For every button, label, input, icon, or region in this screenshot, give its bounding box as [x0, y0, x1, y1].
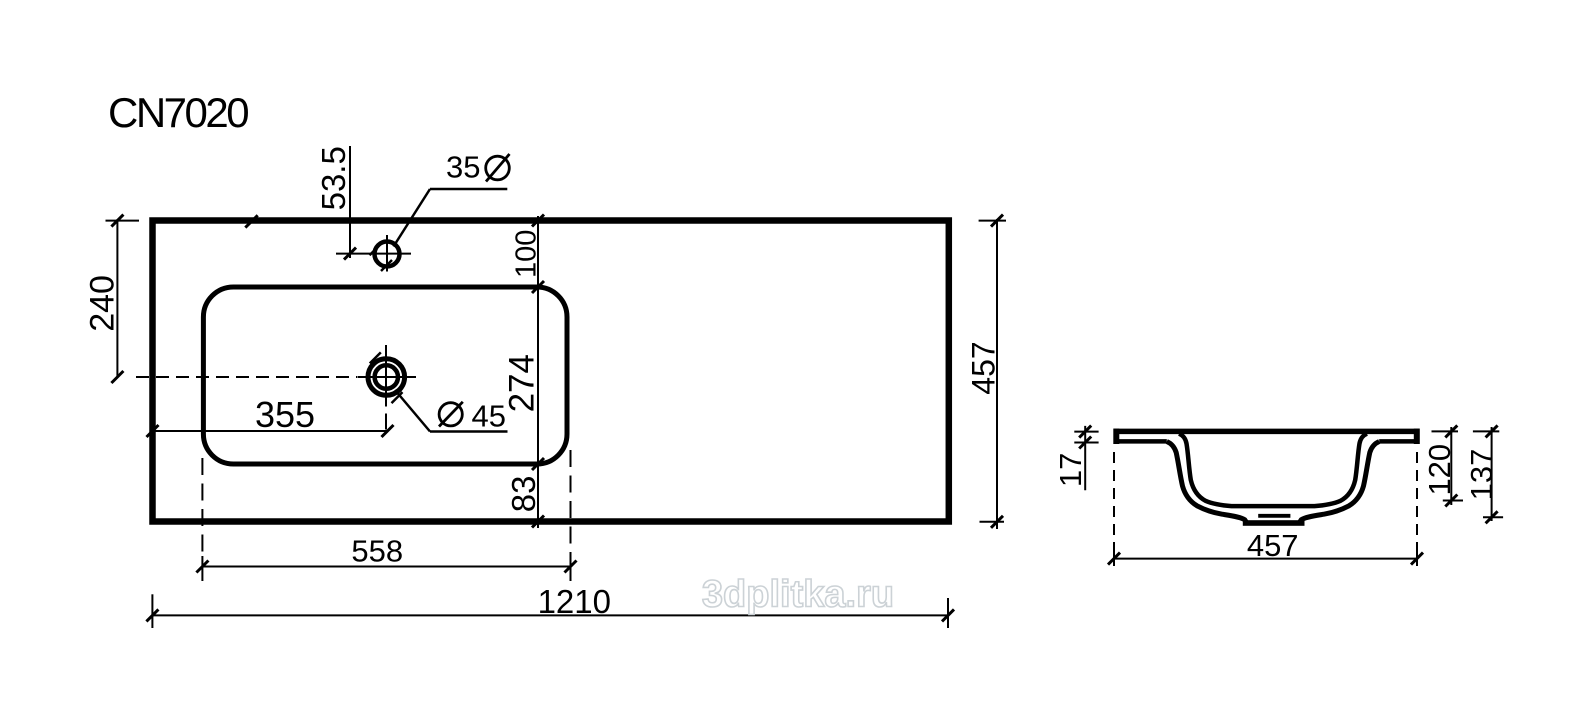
dimension 137 — [1473, 425, 1503, 523]
dimension 240 — [106, 215, 140, 383]
svg-text:100: 100 — [511, 230, 543, 278]
svg-text:53.5: 53.5 — [315, 146, 352, 210]
dimension 1210 — [146, 594, 954, 628]
svg-text:558: 558 — [351, 534, 403, 569]
svg-text:CN7020: CN7020 — [108, 89, 248, 136]
svg-text:457: 457 — [1247, 528, 1299, 563]
svg-text:3dplitka.ru: 3dplitka.ru — [702, 574, 894, 616]
dimension 17 — [1074, 426, 1098, 491]
svg-text:45: 45 — [472, 398, 506, 433]
dimension 558 — [196, 450, 576, 581]
svg-text:1210: 1210 — [538, 583, 611, 620]
dimension 355 — [147, 425, 394, 437]
dimension 53.5 — [344, 146, 356, 260]
svg-text:83: 83 — [505, 476, 542, 513]
dimension 457 section — [1108, 452, 1423, 566]
svg-text:240: 240 — [84, 275, 122, 332]
svg-text:274: 274 — [503, 354, 542, 412]
dimension 120 — [1432, 425, 1464, 506]
svg-text:120: 120 — [1422, 444, 1457, 496]
svg-text:355: 355 — [255, 394, 315, 435]
section: bowl outer wall — [1167, 442, 1379, 524]
section: foot — [1243, 520, 1305, 526]
svg-text:137: 137 — [1464, 449, 1499, 501]
svg-text:35: 35 — [446, 150, 480, 185]
svg-text:17: 17 — [1053, 453, 1088, 487]
faucet hole — [336, 235, 411, 272]
label diameter-45 with leader — [395, 390, 508, 432]
basin outline — [203, 287, 567, 464]
basin centerline dashed — [136, 376, 358, 378]
countertop outline — [153, 221, 949, 522]
dimension 457 main view — [979, 215, 1006, 529]
section: slab — [1114, 429, 1420, 444]
drain hole — [358, 345, 416, 430]
svg-text:457: 457 — [966, 341, 1002, 394]
section: bowl inner wall — [1179, 434, 1367, 506]
dimension line 100/274/83 — [532, 215, 544, 529]
section: drain recess line — [1258, 514, 1290, 518]
tick on top edge — [245, 215, 257, 227]
